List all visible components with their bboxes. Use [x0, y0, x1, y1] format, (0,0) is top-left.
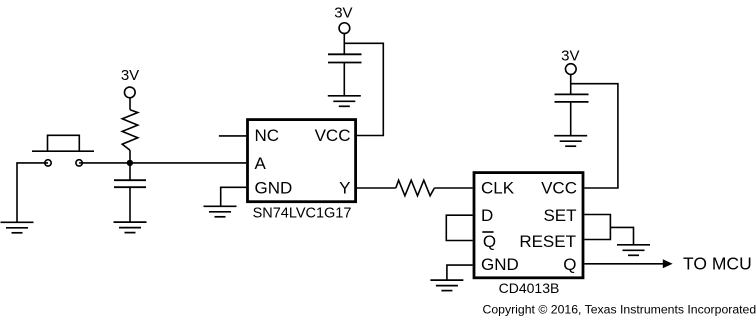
- flip-flop U2 CD4013B box: [474, 173, 583, 278]
- wire: U2 GND to ground: [447, 265, 473, 280]
- wire: V2 to C2: [343, 34, 345, 55]
- wire: C2 to ground: [343, 63, 345, 96]
- svg-text:VCC: VCC: [541, 179, 577, 198]
- svg-text:3V: 3V: [561, 47, 579, 64]
- wire: V2 branch to U1 VCC: [344, 43, 383, 135]
- wire: C1 to ground: [129, 187, 131, 222]
- ground G1 (below S1): [1, 222, 34, 233]
- wire: node A to C1: [129, 163, 131, 181]
- svg-text:Y: Y: [339, 178, 350, 197]
- svg-text:CD4013B: CD4013B: [499, 280, 560, 296]
- wire: V3 to C3: [570, 75, 572, 95]
- op-amp U1 SN74LVC1G17 box: [248, 120, 356, 202]
- wire: U1 GND to ground: [221, 187, 246, 206]
- wire: S1 left contact to ground: [17, 163, 48, 222]
- svg-text:Q: Q: [483, 232, 496, 251]
- ground G5 (below C3): [554, 136, 587, 147]
- wire: NC stub: [219, 135, 246, 137]
- svg-text:3V: 3V: [121, 67, 139, 84]
- capacitor C1: [114, 180, 146, 187]
- capacitor C2: [328, 54, 362, 62]
- svg-text:TO MCU: TO MCU: [683, 253, 752, 273]
- svg-text:A: A: [255, 154, 267, 173]
- capacitor C3: [555, 94, 589, 102]
- svg-text:Q: Q: [563, 255, 576, 274]
- pin label Qbar: [482, 232, 496, 251]
- svg-text:VCC: VCC: [315, 126, 351, 145]
- svg-text:D: D: [481, 206, 493, 225]
- ground G6 (U2 GND): [430, 280, 463, 291]
- wire: R2 to U2 CLK: [434, 187, 472, 189]
- pushbutton S1: [32, 135, 94, 166]
- wire: SET/RESET tie: [585, 215, 611, 240]
- wire: SET/RESET to ground: [610, 227, 633, 244]
- resistor R1: [122, 110, 138, 151]
- svg-text:SET: SET: [543, 206, 576, 225]
- svg-text:SN74LVC1G17: SN74LVC1G17: [253, 205, 352, 221]
- ground G2 (below C1): [114, 222, 147, 233]
- power 3V V1: [121, 67, 139, 98]
- wire: U1 Y to R2: [357, 187, 396, 189]
- svg-text:Copyright © 2016, Texas Instru: Copyright © 2016, Texas Instruments Inco…: [483, 302, 756, 316]
- wire: V1 to R1: [129, 98, 131, 110]
- svg-text:CLK: CLK: [481, 179, 515, 198]
- ground G3 (U1 GND): [204, 206, 237, 217]
- wire: S1 right contact to node A and U1 pin A: [79, 162, 246, 164]
- power 3V V2: [334, 5, 352, 34]
- svg-text:GND: GND: [255, 178, 293, 197]
- wire: Q output to MCU: [585, 263, 664, 265]
- arrowhead (to MCU): [663, 259, 673, 268]
- wire: D to Qbar feedback loop: [446, 215, 472, 240]
- svg-text:NC: NC: [255, 126, 280, 145]
- ground G7 (SET/RESET): [617, 245, 650, 256]
- wire: R1 to node A: [129, 150, 131, 163]
- svg-text:RESET: RESET: [519, 232, 576, 251]
- resistor R2: [396, 180, 435, 196]
- power 3V V3: [561, 47, 579, 74]
- svg-text:GND: GND: [481, 255, 519, 274]
- wire: C3 to ground: [570, 102, 572, 136]
- svg-text:3V: 3V: [334, 5, 352, 22]
- wire: V3 branch to U2 VCC: [571, 84, 618, 188]
- node A junction dot: [127, 160, 133, 166]
- ground G4 (below C2): [328, 96, 361, 107]
